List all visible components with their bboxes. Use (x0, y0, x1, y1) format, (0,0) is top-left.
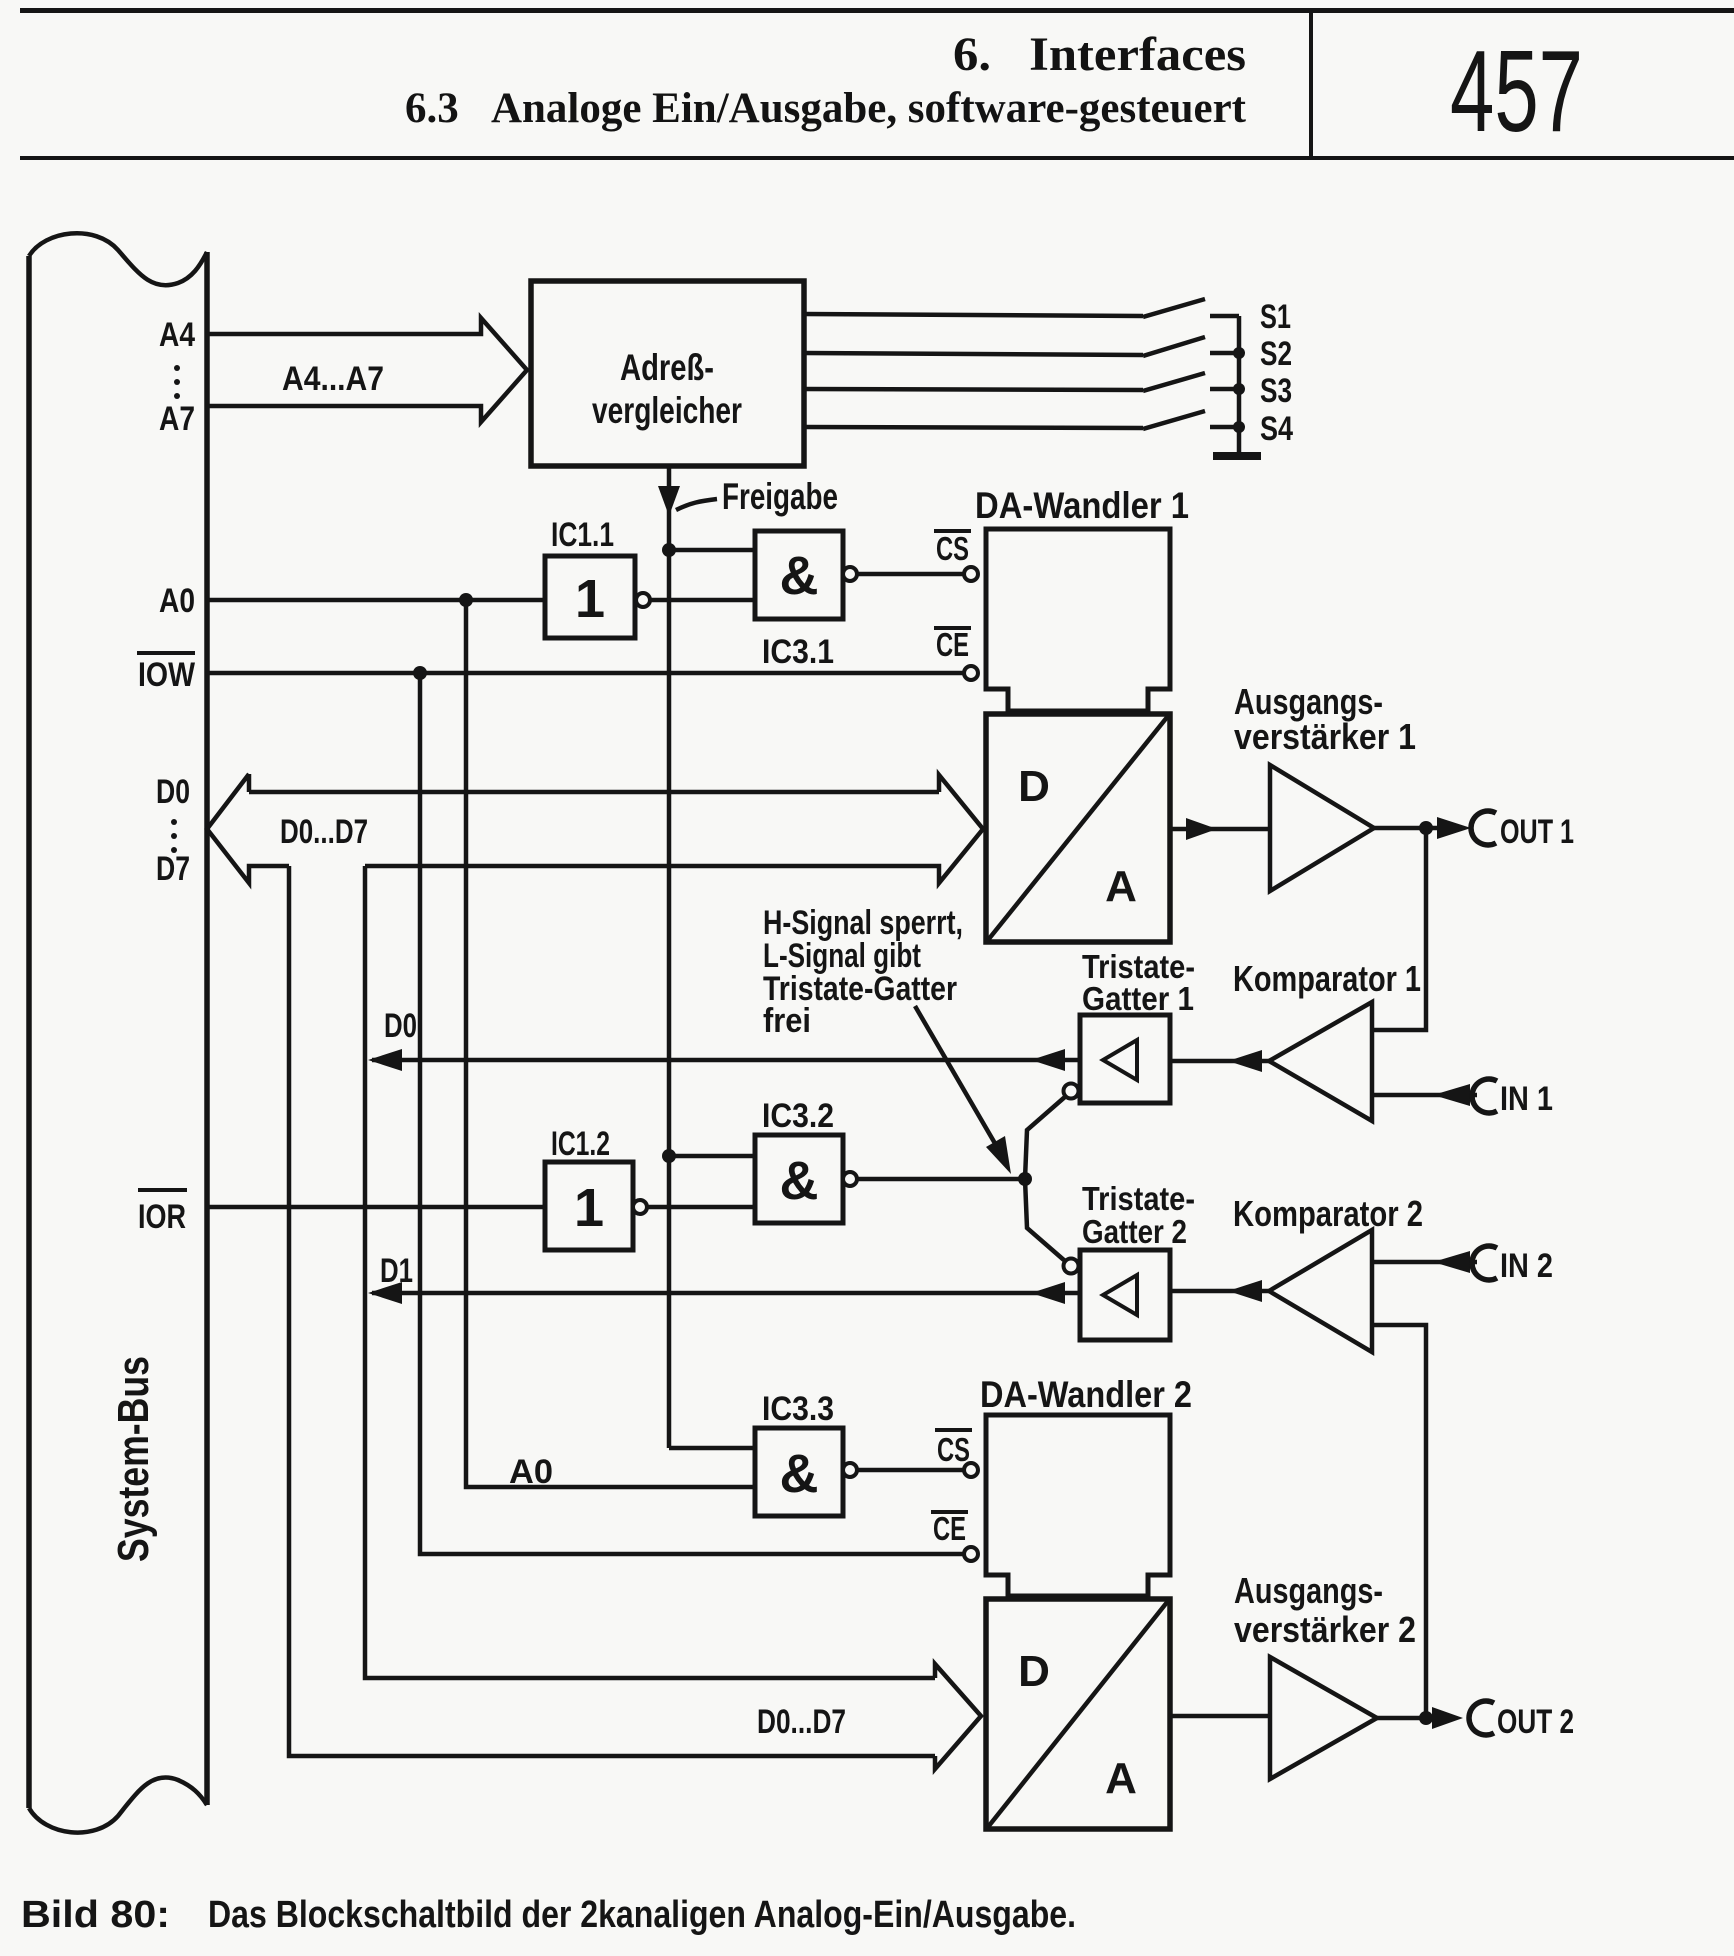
DAC2 control box (986, 1415, 1170, 1596)
wire IC1.1 to IC3.1 (650, 598, 755, 603)
wire read-return rail (365, 866, 935, 1678)
svg-text:D: D (1018, 762, 1050, 811)
svg-text:Bild 80:: Bild 80: (21, 1894, 170, 1936)
bus top wave (29, 233, 207, 285)
svg-text:1: 1 (574, 1178, 604, 1238)
svg-text:Adreß-: Adreß- (620, 347, 714, 388)
svg-text:1: 1 (575, 569, 605, 629)
svg-text:CE: CE (933, 1510, 966, 1547)
svg-text:IN 1: IN 1 (1500, 1080, 1553, 1118)
amplifier 2 (1270, 1657, 1377, 1779)
tristate gate 2 triangle (1103, 1275, 1137, 1315)
node IOW (413, 666, 427, 680)
dots D0..D7 (171, 819, 177, 825)
wire A0 (209, 598, 545, 603)
arrow D0...D7 into DAC1 (365, 775, 983, 883)
D0 return arrowhead at gate (1031, 1049, 1065, 1071)
svg-text:Komparator 2: Komparator 2 (1233, 1193, 1423, 1234)
address comparator box U-ADR (531, 281, 804, 466)
bus bottom wave (29, 1777, 207, 1832)
svg-text:457: 457 (1450, 26, 1583, 156)
IN2 connector (1472, 1246, 1497, 1280)
svg-text:System-Bus: System-Bus (109, 1356, 158, 1562)
IC3.2 output bubble (843, 1172, 857, 1186)
svg-text:A4: A4 (159, 316, 195, 354)
svg-text:IN 2: IN 2 (1500, 1247, 1553, 1285)
svg-text:IC3.2: IC3.2 (762, 1097, 834, 1135)
wire comp2 to tristate2 (1170, 1289, 1269, 1294)
inverter IC1.2 (545, 1162, 633, 1250)
node Freigabe/IC3.1 (662, 543, 676, 557)
bus double arrow D0...D7 left head (207, 774, 289, 883)
svg-text:6.3 Analoge Ein/Ausgabe, sof: 6.3 Analoge Ein/Ausgabe, software-gesteu… (405, 85, 1247, 132)
wire IN1 (1372, 1093, 1477, 1098)
Freigabe leader (676, 499, 717, 510)
tristate gate 1 box (1080, 1015, 1170, 1103)
IC1.2 output bubble (633, 1200, 647, 1214)
system bus right rail (204, 252, 210, 1805)
svg-text:A4...A7: A4...A7 (282, 360, 384, 398)
wire amp1 to OUT1 (1374, 826, 1440, 831)
nand IC3.2 (755, 1135, 843, 1223)
header bottom rule (20, 156, 1734, 160)
wire IC3.1 to CS1 (857, 572, 964, 577)
wire S2 (804, 353, 1143, 355)
svg-text:OUT 2: OUT 2 (1497, 1703, 1574, 1741)
nand IC3.3 (755, 1428, 843, 1516)
svg-text:6. Interfaces: 6. Interfaces (953, 28, 1246, 81)
comp1 out arrowhead (1228, 1050, 1262, 1072)
svg-text:Gatter 2: Gatter 2 (1082, 1213, 1187, 1250)
wire S1 (804, 314, 1143, 316)
D0 return arrowhead at rail (368, 1049, 402, 1071)
svg-text:IOW: IOW (138, 656, 196, 694)
switch S2 stub (1210, 351, 1239, 356)
DAC1 output arrowhead (1186, 818, 1217, 840)
bus arrow A4...A7 (209, 318, 527, 422)
CS1 overline (934, 529, 971, 533)
IC1.1 output bubble (636, 593, 650, 607)
D1 return arrowhead at gate (1031, 1282, 1065, 1304)
wire A0 branch (466, 600, 755, 1487)
svg-text:S4: S4 (1260, 410, 1293, 448)
wire comp2 input from OUT2 (1372, 1325, 1426, 1718)
switch common rail (1237, 316, 1242, 452)
wire D0 return (372, 1058, 1080, 1063)
CE2 input bubble (964, 1547, 978, 1561)
DAC1 converter box (986, 714, 1170, 942)
enable node (1018, 1172, 1032, 1186)
svg-text:S2: S2 (1260, 335, 1292, 373)
wire IC3.3 to CS2 (857, 1468, 964, 1473)
DAC2 output wire (1170, 1714, 1270, 1719)
Freigabe direction arrowhead (658, 486, 680, 516)
arrow D0...D7 into DAC2 (935, 1664, 981, 1769)
wire OUT1 feedback down (1372, 828, 1426, 1030)
wire Freigabe to IC3.2 (669, 1154, 755, 1159)
wire comp1 to tristate1 (1170, 1059, 1269, 1064)
switch S1 stub (1210, 314, 1239, 319)
tristate gate 2 enable bubble (1064, 1259, 1079, 1274)
wire amp2 to OUT2 (1377, 1716, 1440, 1721)
wire IOR (209, 1205, 545, 1210)
svg-text:Tristate-: Tristate- (1082, 1180, 1195, 1217)
wire enable to tristate1 (1025, 1096, 1066, 1179)
wire Freigabe to IC3.1 (669, 548, 755, 553)
CE2 overline (931, 1510, 968, 1514)
header top rule (20, 8, 1734, 13)
amplifier 1 (1270, 765, 1374, 891)
IOR overline (138, 1188, 187, 1192)
dots A4..A7 (174, 365, 180, 371)
svg-text:IOR: IOR (138, 1198, 186, 1236)
svg-text:Freigabe: Freigabe (722, 476, 838, 517)
DAC2 converter box (986, 1599, 1170, 1829)
switch S3 blade (1143, 373, 1205, 391)
CS2 input bubble (964, 1463, 978, 1477)
svg-text:A: A (1105, 1754, 1137, 1803)
IC3.3 output bubble (843, 1463, 857, 1477)
DAC2 diagonal (988, 1601, 1168, 1827)
comparator 1 (1269, 1002, 1372, 1121)
node Freigabe/IC3.2 (662, 1149, 676, 1163)
wire Freigabe vertical (667, 466, 672, 1448)
junction S4 (1233, 421, 1245, 433)
switch S4 stub (1210, 425, 1239, 430)
svg-text:CS: CS (936, 530, 969, 567)
CS1 input bubble (964, 567, 978, 581)
wire D0...D7 top (249, 790, 939, 795)
node OUT1 (1419, 821, 1433, 835)
node OUT2 (1419, 1711, 1433, 1725)
wire S3 (804, 389, 1143, 390)
comparator 2 (1269, 1230, 1372, 1352)
node A0 (459, 593, 473, 607)
tristate gate 2 box (1080, 1250, 1170, 1340)
svg-text:&: & (780, 1444, 819, 1504)
wire IC3.2 to enable node (857, 1177, 1025, 1182)
ground (1213, 452, 1261, 460)
svg-text:D0...D7: D0...D7 (757, 1703, 846, 1741)
note leader arrow (915, 1006, 1000, 1152)
svg-text:vergleicher: vergleicher (592, 390, 742, 431)
svg-text:D0: D0 (384, 1007, 417, 1045)
OUT1 arrowhead (1437, 817, 1471, 839)
switch S1 blade (1143, 299, 1205, 317)
comp2 out arrowhead (1228, 1280, 1262, 1302)
junction S3 (1233, 383, 1245, 395)
svg-text:D: D (1018, 1647, 1050, 1696)
svg-text:verstärker 1: verstärker 1 (1234, 716, 1416, 757)
wire IOW (209, 671, 964, 676)
note leader arrowhead (986, 1136, 1011, 1174)
switch S4 blade (1143, 411, 1205, 429)
inverter IC1.1 (545, 556, 635, 638)
CE1 input bubble (964, 666, 978, 680)
svg-text:&: & (780, 546, 819, 606)
svg-text:&: & (780, 1151, 819, 1211)
OUT1 connector (1471, 811, 1496, 845)
tristate gate 1 enable bubble (1064, 1084, 1079, 1099)
svg-text:verstärker 2: verstärker 2 (1234, 1609, 1416, 1650)
svg-text:S3: S3 (1260, 372, 1292, 410)
svg-text:OUT 1: OUT 1 (1500, 813, 1574, 851)
junction S2 (1233, 347, 1245, 359)
wire data branch to DAC2 (289, 866, 935, 1756)
IN1 connector (1472, 1079, 1497, 1113)
DAC1 control box (986, 529, 1170, 711)
IN1 arrowhead (1433, 1084, 1470, 1106)
wire IC1.2 to IC3.2 (647, 1205, 755, 1210)
svg-text:IC3.1: IC3.1 (762, 633, 834, 671)
header divider vertical (1309, 8, 1313, 160)
wire S4 (804, 427, 1143, 428)
svg-text:A7: A7 (159, 400, 195, 438)
svg-text:frei: frei (763, 1002, 811, 1040)
svg-text:CE: CE (936, 626, 969, 663)
wire Freigabe corner to IC3.3 (669, 1446, 755, 1451)
svg-text:A0: A0 (159, 582, 195, 620)
system bus left rail (26, 256, 32, 1808)
D1 return arrowhead at rail (368, 1282, 402, 1304)
OUT2 arrowhead (1432, 1707, 1463, 1729)
OUT2 connector (1469, 1701, 1494, 1735)
IOW overline (137, 651, 195, 655)
svg-text:Das Blockschaltbild der 2kanal: Das Blockschaltbild der 2kanaligen Analo… (208, 1894, 1076, 1936)
svg-text:D1: D1 (380, 1252, 413, 1290)
wire enable to tristate2 (1025, 1179, 1065, 1261)
DAC1 output wire (1170, 827, 1270, 832)
wire IOW branch to CE2 (420, 673, 964, 1554)
svg-text:IC1.1: IC1.1 (551, 516, 614, 554)
wire D1 return (372, 1291, 1080, 1296)
svg-text:DA-Wandler 2: DA-Wandler 2 (980, 1374, 1192, 1415)
svg-text:D7: D7 (156, 850, 190, 888)
svg-text:CS: CS (937, 1431, 970, 1468)
nand IC3.1 (755, 531, 843, 619)
IN2 arrowhead (1433, 1251, 1470, 1273)
svg-text:A: A (1105, 862, 1137, 911)
svg-text:Ausgangs-: Ausgangs- (1234, 1570, 1383, 1611)
wire IN2 (1372, 1260, 1477, 1265)
svg-text:Gatter 1: Gatter 1 (1082, 980, 1194, 1017)
svg-text:A0: A0 (509, 1453, 553, 1491)
svg-text:D0...D7: D0...D7 (280, 813, 368, 851)
switch S2 blade (1143, 337, 1205, 356)
CS2 overline (935, 1428, 972, 1432)
svg-text:S1: S1 (1260, 298, 1291, 336)
svg-text:IC3.3: IC3.3 (762, 1390, 834, 1428)
IC3.1 output bubble (843, 567, 857, 581)
switch S3 stub (1210, 387, 1239, 392)
svg-text:D0: D0 (156, 773, 190, 811)
DAC1 diagonal (988, 716, 1168, 940)
svg-text:Komparator 1: Komparator 1 (1233, 958, 1421, 999)
svg-text:DA-Wandler 1: DA-Wandler 1 (975, 485, 1189, 526)
svg-text:IC1.2: IC1.2 (551, 1125, 610, 1163)
CE1 overline (934, 626, 971, 630)
tristate gate 1 triangle (1103, 1040, 1137, 1080)
